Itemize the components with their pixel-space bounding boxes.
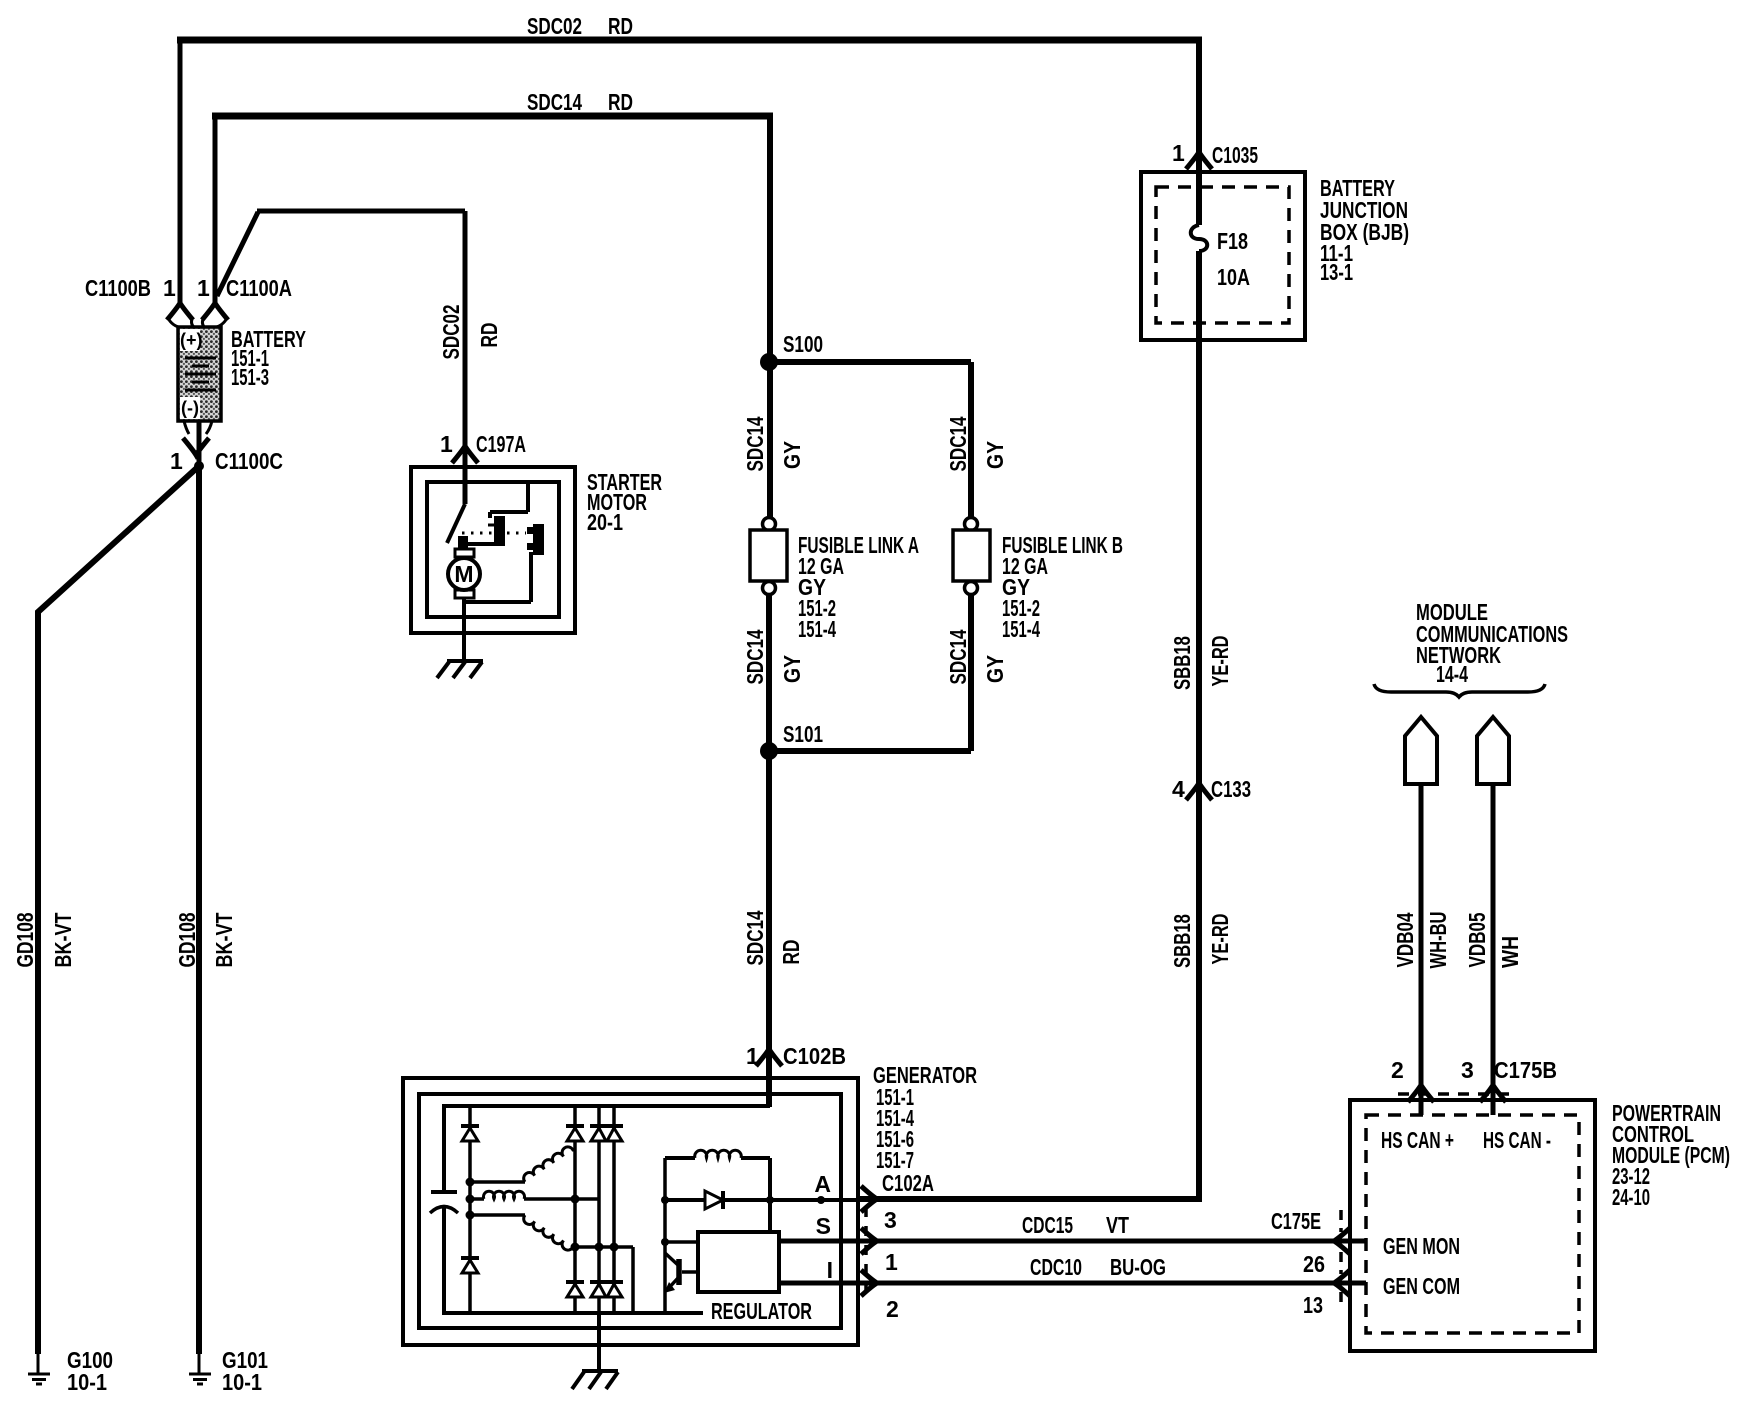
svg-text:HS CAN -: HS CAN - — [1483, 1127, 1551, 1153]
wire SDC14 right drop to S100 — [767, 113, 773, 518]
svg-text:GY: GY — [779, 655, 805, 683]
connector C1035 — [1186, 152, 1212, 169]
svg-text:GEN COM: GEN COM — [1383, 1273, 1460, 1299]
svg-text:VT: VT — [1106, 1212, 1129, 1238]
diode (bottom, phase 3) — [606, 1280, 623, 1284]
svg-text:S100: S100 — [783, 331, 823, 357]
svg-text:SDC14: SDC14 — [945, 629, 971, 684]
connector C102A pin 1 / wire I (CDC10 BU-OG) — [779, 1281, 1366, 1286]
label SDC14 (feed to generator) — [742, 910, 768, 965]
svg-text:YE-RD: YE-RD — [1207, 914, 1233, 965]
wire starter to ground — [462, 598, 466, 661]
stator winding bottom phase — [470, 1213, 525, 1217]
regulator box — [698, 1232, 779, 1292]
wire link B to S101 — [769, 595, 971, 751]
svg-text:HS CAN +: HS CAN + — [1381, 1127, 1454, 1153]
svg-text:1: 1 — [197, 275, 210, 301]
svg-text:C1100C: C1100C — [215, 448, 283, 474]
transistor Q (regulator) — [676, 1259, 682, 1285]
svg-text:14-4: 14-4 — [1436, 661, 1468, 687]
connector C197A — [452, 446, 478, 463]
node battery ground split — [194, 461, 204, 471]
svg-text:13-1: 13-1 — [1320, 259, 1353, 285]
brace (module communications network) — [1374, 684, 1545, 697]
wire S inside generator — [665, 1240, 698, 1244]
wire GD108 to G100 (diagonal + vertical) — [38, 466, 199, 1354]
battery junction box inner dashed — [1156, 187, 1289, 323]
svg-text:RD: RD — [608, 13, 633, 39]
svg-text:4: 4 — [1172, 776, 1185, 802]
fusible link A — [763, 518, 776, 531]
connector C133 — [1186, 783, 1212, 800]
node S101 — [760, 742, 778, 760]
svg-text:1: 1 — [440, 431, 453, 457]
svg-text:YE-RD: YE-RD — [1207, 636, 1233, 687]
powertrain control module outer box — [1350, 1100, 1595, 1351]
svg-text:C175B: C175B — [1494, 1057, 1557, 1083]
connector C175B pins 2 and 3 — [1408, 1085, 1434, 1102]
svg-text:SBB18: SBB18 — [1169, 914, 1195, 968]
starter internal return wire — [464, 552, 531, 602]
wire SDC02 right drop to C1035 — [1196, 37, 1202, 154]
capacitor C (generator) — [442, 1104, 446, 1190]
svg-text:S: S — [816, 1213, 831, 1239]
stator winding middle phase — [484, 1191, 525, 1199]
svg-text:C197A: C197A — [476, 431, 526, 457]
svg-text:CDC15: CDC15 — [1022, 1212, 1073, 1238]
svg-text:VDB05: VDB05 — [1464, 912, 1490, 967]
node stator taps — [466, 1178, 475, 1187]
starter motor inner box — [427, 482, 559, 617]
ground (starter) — [437, 661, 483, 678]
svg-text:20-1: 20-1 — [587, 509, 623, 535]
svg-text:F18: F18 — [1217, 228, 1248, 254]
svg-text:C1100B: C1100B — [85, 275, 151, 301]
svg-text:BU-OG: BU-OG — [1110, 1254, 1166, 1280]
svg-text:BK-VT: BK-VT — [211, 913, 237, 968]
wire link A to S101 — [766, 595, 772, 752]
svg-text:S101: S101 — [783, 721, 823, 747]
svg-text:C1035: C1035 — [1212, 142, 1258, 168]
generator outer box — [403, 1078, 858, 1345]
battery — [178, 327, 221, 421]
svg-text:151-4: 151-4 — [1002, 616, 1040, 642]
label RD (vertical, starter feed) — [476, 323, 502, 348]
svg-text:WH-BU: WH-BU — [1425, 912, 1451, 969]
svg-text:2: 2 — [886, 1296, 899, 1322]
svg-text:SDC14: SDC14 — [742, 910, 768, 965]
label GY (lower right branch) — [982, 655, 1008, 683]
svg-text:REGULATOR: REGULATOR — [711, 1298, 812, 1324]
connector C102A pin A — [861, 1186, 877, 1212]
label GY (lower left branch) — [779, 655, 805, 683]
label GY (upper left branch) — [779, 441, 805, 469]
label SDC14 (upper left branch) — [742, 416, 768, 471]
svg-text:C102B: C102B — [783, 1043, 846, 1069]
label SBB18 (upper) — [1169, 636, 1195, 690]
wire SDC02 top rail — [177, 37, 1202, 44]
svg-text:A: A — [814, 1171, 831, 1197]
svg-text:RD: RD — [476, 323, 502, 348]
regulator field winding loop — [663, 1158, 667, 1313]
network connector pentagon (left) — [1405, 717, 1437, 784]
diode (top left) — [461, 1124, 479, 1128]
ground G101 — [198, 1353, 201, 1374]
connector C175E (GEN COM side) — [1334, 1270, 1350, 1296]
diode (top, phase 1) — [566, 1124, 584, 1128]
label GD108 (right, vertical) — [174, 912, 200, 967]
wire BJB to generator A (SBB18) — [858, 251, 1199, 1199]
svg-text:C102A: C102A — [882, 1170, 934, 1196]
svg-text:1: 1 — [1172, 140, 1185, 166]
connector C102A pin 3 / wire S (CDC15 VT) — [779, 1239, 1366, 1244]
svg-text:WH: WH — [1497, 936, 1523, 968]
starter motor outer box — [411, 467, 575, 633]
node junctions (regulator) — [661, 1196, 669, 1204]
ground G100 — [37, 1353, 40, 1374]
svg-text:RD: RD — [608, 89, 633, 115]
label SDC14 (lower right branch) — [945, 629, 971, 684]
svg-text:3: 3 — [884, 1207, 897, 1233]
svg-text:VDB04: VDB04 — [1392, 912, 1418, 967]
svg-text:GY: GY — [779, 441, 805, 469]
svg-text:GY: GY — [982, 441, 1008, 469]
stator phase vertical 2 — [597, 1106, 601, 1313]
svg-text:10A: 10A — [1217, 264, 1250, 290]
wire battery to starter (SDC02 branch) — [217, 211, 465, 504]
stator phase vertical 3 — [612, 1106, 616, 1313]
svg-text:CDC10: CDC10 — [1030, 1254, 1082, 1280]
svg-text:(-): (-) — [181, 398, 199, 418]
starter dotted actuator line — [462, 532, 526, 535]
svg-text:GD108: GD108 — [174, 912, 200, 967]
label SDC02 (vertical, starter feed) — [438, 305, 464, 360]
ground (generator) — [572, 1371, 618, 1389]
svg-text:SDC14: SDC14 — [945, 416, 971, 471]
generator inner box — [419, 1094, 841, 1328]
connector C1100A — [202, 303, 228, 320]
wire SDC14 left drop to C1100A — [213, 113, 218, 303]
wire battery negative stub — [197, 421, 202, 466]
diode (bottom, phase 1) — [566, 1280, 584, 1284]
label WH (vertical) — [1497, 936, 1523, 968]
label YE-RD (upper) — [1207, 636, 1233, 687]
starter switch blade — [447, 504, 465, 543]
label GD108 (left, vertical) — [12, 912, 38, 967]
connector C175E dashed boundary — [1339, 1210, 1343, 1302]
label SDC14 (upper right branch) — [945, 416, 971, 471]
wire A inside generator — [665, 1198, 858, 1202]
starter motor M — [455, 549, 474, 557]
network connector pentagon (right) — [1477, 717, 1509, 784]
svg-text:1: 1 — [746, 1043, 759, 1069]
svg-text:1: 1 — [885, 1249, 898, 1275]
svg-text:2: 2 — [1391, 1057, 1404, 1083]
generator left diode branch — [468, 1106, 472, 1313]
svg-text:GEN MON: GEN MON — [1383, 1233, 1460, 1259]
stator winding top phase — [470, 1180, 525, 1184]
label BK-VT (left, vertical) — [50, 913, 76, 968]
svg-text:151-4: 151-4 — [798, 616, 836, 642]
svg-text:SDC02: SDC02 — [527, 13, 582, 39]
starter solenoid link — [466, 542, 494, 546]
powertrain control module inner dashed box — [1366, 1115, 1579, 1333]
svg-text:GY: GY — [982, 655, 1008, 683]
diode (bottom left) — [461, 1256, 479, 1260]
svg-text:1: 1 — [170, 448, 183, 474]
label RD (feed to generator) — [778, 940, 804, 965]
fusible link B — [965, 518, 978, 531]
svg-text:10-1: 10-1 — [67, 1369, 107, 1395]
battery junction box outer — [1141, 172, 1305, 340]
diode (regulator A) — [705, 1191, 723, 1209]
svg-text:13: 13 — [1303, 1292, 1323, 1318]
svg-text:M: M — [454, 561, 473, 587]
label WH-BU (vertical) — [1425, 912, 1451, 969]
starter plunger contact — [533, 524, 544, 555]
generator bottom rail — [444, 1311, 703, 1315]
connector C1100B — [167, 303, 193, 320]
svg-text:C1100A: C1100A — [226, 275, 292, 301]
svg-text:SDC14: SDC14 — [742, 416, 768, 471]
svg-text:SDC14: SDC14 — [527, 89, 582, 115]
svg-text:3: 3 — [1461, 1057, 1474, 1083]
svg-text:SBB18: SBB18 — [1169, 636, 1195, 690]
svg-text:151-3: 151-3 — [231, 364, 269, 390]
generator top rail — [444, 1104, 770, 1108]
label YE-RD (lower) — [1207, 914, 1233, 965]
svg-text:RD: RD — [778, 940, 804, 965]
wire S100 branch to fusible link B — [769, 362, 971, 518]
label SBB18 (lower) — [1169, 914, 1195, 968]
svg-text:C175E: C175E — [1271, 1208, 1321, 1234]
svg-text:SDC14: SDC14 — [742, 629, 768, 684]
svg-text:26: 26 — [1303, 1251, 1325, 1277]
wire VDB04 HS CAN + — [1419, 784, 1424, 1115]
wire VDB05 HS CAN - — [1491, 784, 1496, 1115]
label VDB04 (vertical) — [1392, 912, 1418, 967]
wire S101 to generator C102B — [766, 751, 772, 1107]
wire SDC14 rail — [212, 113, 773, 120]
svg-text:I: I — [827, 1257, 833, 1283]
diode (top, phase 3) — [606, 1124, 623, 1128]
connector C1100C — [184, 421, 212, 434]
svg-text:(+): (+) — [180, 330, 203, 350]
wire SDC02 left drop to C1100B — [178, 37, 183, 303]
svg-text:BK-VT: BK-VT — [50, 913, 76, 968]
svg-text:GD108: GD108 — [12, 912, 38, 967]
svg-text:C133: C133 — [1211, 776, 1251, 802]
wire GD108 to G101 (vertical) — [196, 464, 202, 1354]
label SDC14 (lower left branch) — [742, 629, 768, 684]
label BK-VT (right, vertical) — [211, 913, 237, 968]
label GY (upper right branch) — [982, 441, 1008, 469]
svg-text:SDC02: SDC02 — [438, 305, 464, 360]
node S100 — [760, 353, 778, 371]
svg-text:10-1: 10-1 — [222, 1369, 262, 1395]
svg-text:1: 1 — [163, 275, 176, 301]
wire generator to ground — [597, 1313, 601, 1371]
connector C102A dashed boundary — [864, 1207, 868, 1296]
stator phase vertical 1 — [573, 1106, 577, 1313]
label VDB05 (vertical) — [1464, 912, 1490, 967]
fuse F18 10A — [1196, 152, 1202, 225]
connector C102B — [756, 1049, 782, 1066]
diode (top, phase 2) — [590, 1124, 607, 1128]
diode (bottom, phase 2) — [590, 1280, 607, 1284]
svg-text:24-10: 24-10 — [1612, 1184, 1650, 1210]
starter contact feed — [490, 482, 528, 518]
